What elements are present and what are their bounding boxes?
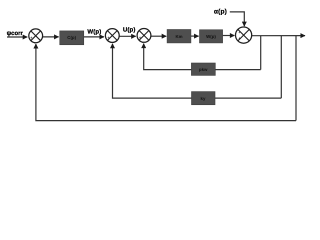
svg-text:pkw: pkw [199, 67, 208, 72]
svg-text:C(p): C(p) [67, 35, 76, 40]
svg-text:W(p): W(p) [206, 34, 216, 39]
svg-text:α(p): α(p) [214, 9, 227, 16]
svg-text:ψcorr: ψcorr [7, 31, 24, 37]
svg-text:Km: Km [175, 34, 182, 39]
svg-text:U(p): U(p) [123, 27, 136, 34]
svg-text:W(p): W(p) [87, 28, 101, 35]
svg-text:ky: ky [201, 96, 206, 101]
